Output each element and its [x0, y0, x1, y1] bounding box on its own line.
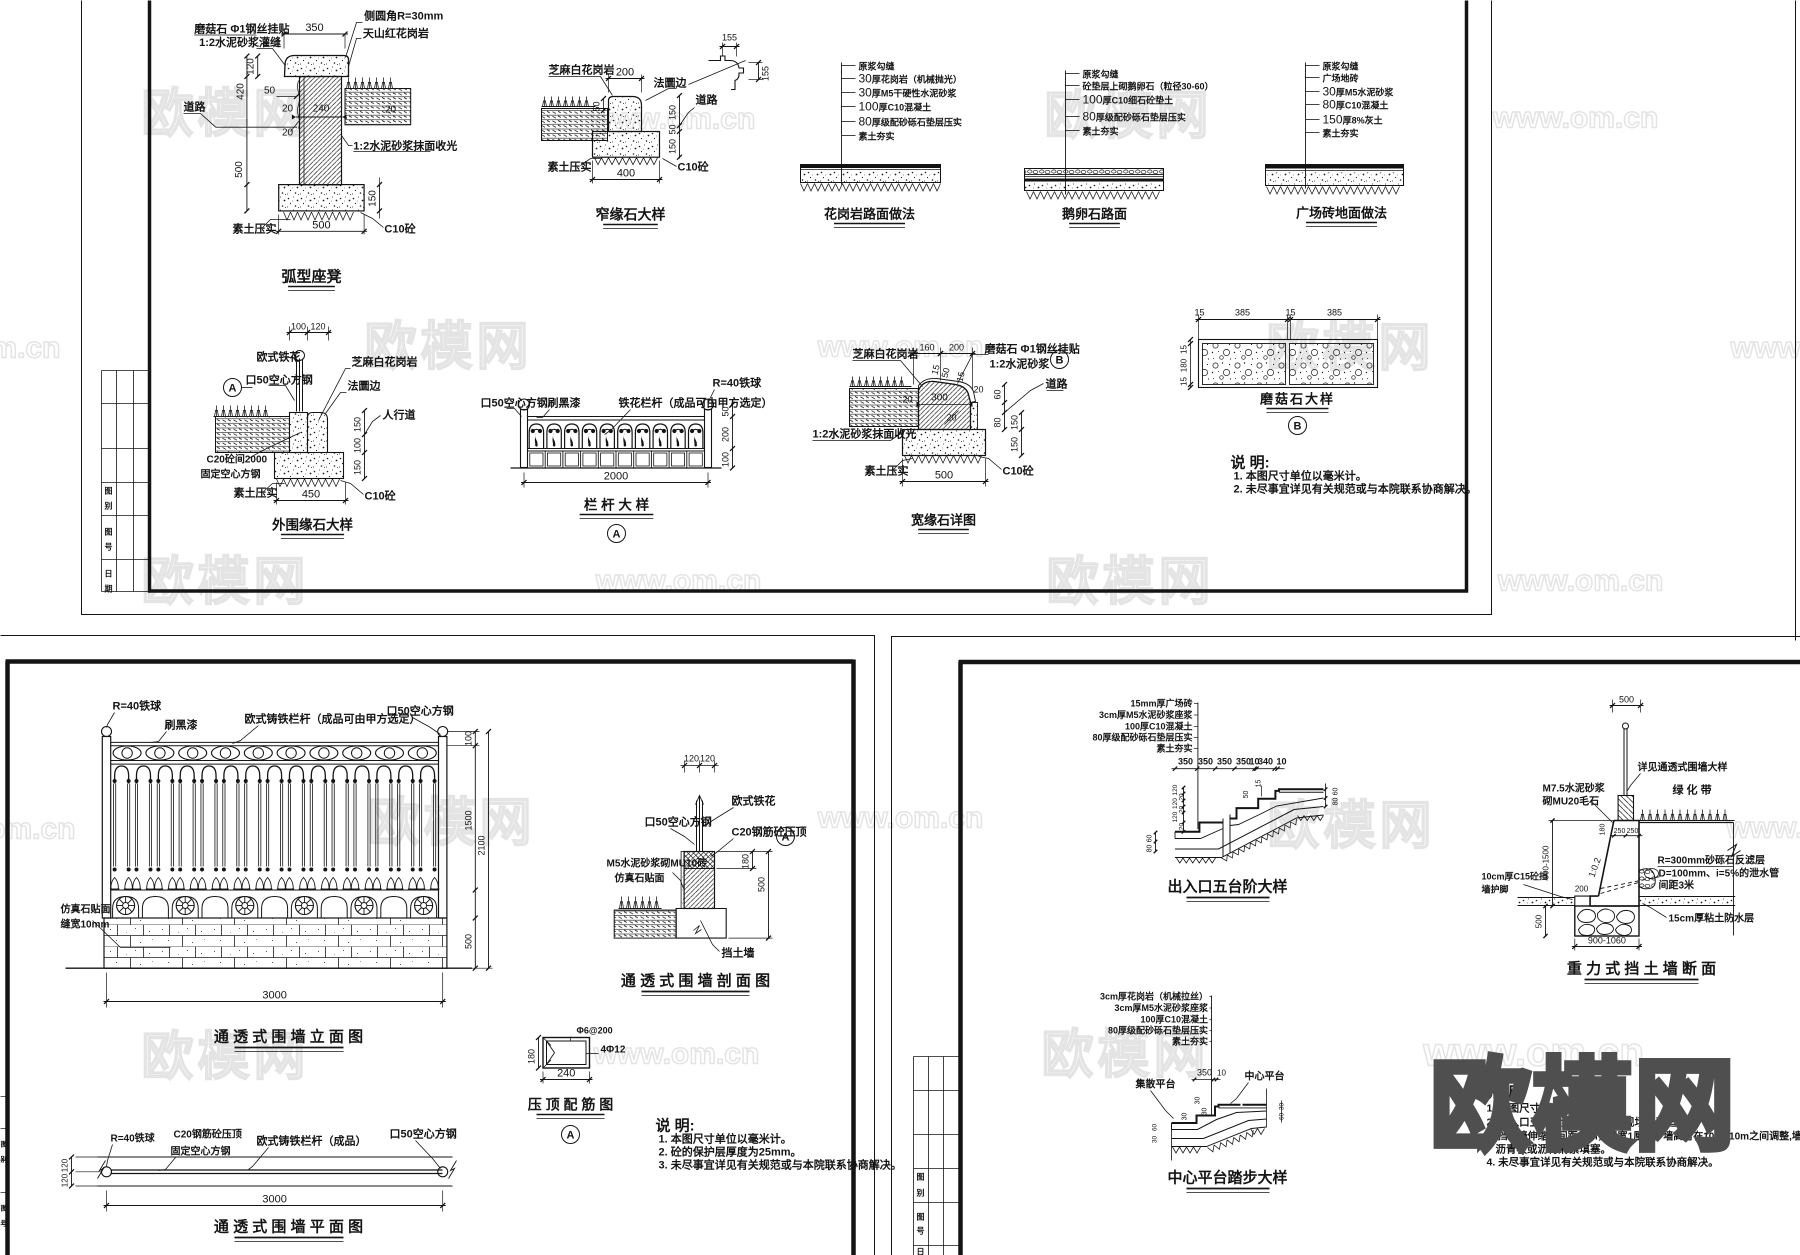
svg-text:墙护脚: 墙护脚 — [1482, 884, 1509, 895]
svg-text:中心平台: 中心平台 — [1245, 1070, 1285, 1083]
svg-text:1:2水泥砂浆: 1:2水泥砂浆 — [990, 357, 1051, 371]
svg-text:法圜边: 法圜边 — [654, 76, 688, 90]
svg-text:素土夯实: 素土夯实 — [1323, 128, 1359, 139]
fence lower arches and rosettes — [117, 897, 135, 915]
svg-text:2100: 2100 — [477, 835, 487, 855]
svg-text:素土压实: 素土压实 — [548, 160, 592, 174]
svg-text:30: 30 — [859, 72, 873, 86]
svg-text:240: 240 — [557, 1068, 575, 1080]
svg-text:厚级配砂砾石垫层压实: 厚级配砂砾石垫层压实 — [1096, 112, 1186, 123]
wide curb top dims 160/200 — [913, 348, 915, 385]
retaining wall toe — [1575, 896, 1590, 906]
wide curb ground hatch — [905, 456, 982, 464]
outer curb circleA — [224, 379, 242, 397]
svg-text:30: 30 — [1152, 1136, 1159, 1144]
svg-text:厚C10细石砼垫土: 厚C10细石砼垫土 — [1103, 95, 1174, 106]
svg-text:80厚级配砂砾石垫层压实: 80厚级配砂砾石垫层压实 — [1092, 732, 1192, 743]
svg-text:30: 30 — [1195, 1097, 1202, 1105]
svg-text:120: 120 — [61, 1158, 70, 1172]
svg-text:3000: 3000 — [262, 990, 286, 1002]
svg-text:180: 180 — [527, 1049, 537, 1064]
fence plan break marks — [98, 1161, 106, 1179]
svg-text:欧模网: 欧模网 — [1267, 798, 1435, 856]
svg-text:20: 20 — [973, 385, 983, 395]
svg-text:C20钢筋砼压顶: C20钢筋砼压顶 — [174, 1128, 242, 1141]
svg-text:10: 10 — [1276, 757, 1286, 767]
retaining wall dims left 900-1500 / 500 — [1552, 821, 1554, 907]
svg-text:厚M5干硬性水泥砂浆: 厚M5干硬性水泥砂浆 — [872, 88, 958, 99]
svg-text:欧式铸铁栏杆（成品）: 欧式铸铁栏杆（成品） — [257, 1134, 367, 1148]
narrow curb right dim chain 150/50/150 — [679, 96, 681, 159]
svg-text:2. 未尽事宜详见有关规范或与本院联系协商解决。: 2. 未尽事宜详见有关规范或与本院联系协商解决。 — [1234, 482, 1477, 496]
svg-text:500: 500 — [463, 934, 473, 949]
svg-text:别: 别 — [916, 1189, 925, 1198]
bench roadside layers — [345, 89, 411, 125]
svg-text:1. 本图尺寸单位以毫米计。: 1. 本图尺寸单位以毫米计。 — [659, 1132, 792, 1146]
svg-text:号: 号 — [105, 543, 113, 552]
svg-text:3cm厚M5水泥砂浆座浆: 3cm厚M5水泥砂浆座浆 — [1114, 1002, 1209, 1013]
svg-text:厚C10混凝土: 厚C10混凝土 — [879, 102, 932, 113]
svg-text:芝麻白花岗岩: 芝麻白花岗岩 — [549, 63, 615, 77]
svg-text:外围缘石大样: 外围缘石大样 — [272, 517, 353, 533]
svg-text:500: 500 — [1535, 914, 1544, 928]
bench right dim 150 — [379, 185, 381, 211]
svg-text:240: 240 — [313, 104, 330, 115]
center platform dim 350/10 — [1192, 1079, 1221, 1081]
svg-text:仿真石贴面: 仿真石贴面 — [61, 903, 111, 916]
svg-text:180: 180 — [741, 854, 751, 869]
fence dim 3000 — [106, 973, 108, 1008]
retaining wall dim 900-1060 — [1574, 939, 1576, 951]
svg-text:口50空心方钢: 口50空心方钢 — [481, 396, 548, 410]
center platform right boundary — [1266, 1089, 1268, 1128]
fence section circleA — [777, 828, 795, 846]
svg-text:30: 30 — [1323, 85, 1337, 99]
svg-text:30: 30 — [1202, 1108, 1209, 1116]
svg-text:80: 80 — [1147, 845, 1154, 853]
svg-text:D=100mm、i=5%的泄水管: D=100mm、i=5%的泄水管 — [1659, 867, 1780, 880]
svg-text:www.om.cn: www.om.cn — [1726, 812, 1800, 845]
svg-text:欧模网: 欧模网 — [141, 554, 309, 612]
svg-text:155: 155 — [722, 33, 737, 43]
mushroom left small dims — [1190, 340, 1192, 388]
outer curb stones — [290, 413, 308, 453]
sheet3 thick border — [959, 662, 1800, 1255]
svg-text:欧式铁花: 欧式铁花 — [257, 350, 301, 364]
svg-text:400: 400 — [617, 168, 635, 180]
svg-text:Φ6@200: Φ6@200 — [577, 1026, 613, 1036]
svg-text:窄缘石大样: 窄缘石大样 — [596, 207, 666, 223]
sheet2 left edge strip marks — [1, 1096, 8, 1098]
svg-text:120: 120 — [310, 322, 325, 332]
fence lower band rails — [111, 889, 439, 891]
svg-text:素土夯实: 素土夯实 — [1172, 1036, 1208, 1047]
svg-text:素土夯实: 素土夯实 — [1156, 743, 1192, 754]
svg-text:100: 100 — [721, 452, 731, 467]
svg-text:120: 120 — [684, 754, 699, 764]
svg-text:1:2水泥砂浆灌缝: 1:2水泥砂浆灌缝 — [199, 35, 281, 49]
svg-text:1:2水泥砂浆抹面收光: 1:2水泥砂浆抹面收光 — [353, 139, 457, 153]
svg-text:A: A — [567, 1130, 575, 1142]
fence section post rod — [696, 801, 698, 852]
retaining wall gravel filter — [1639, 869, 1655, 889]
narrow curb dim 400 — [592, 161, 594, 184]
svg-text:通 透 式 围 墙 平 面 图: 通 透 式 围 墙 平 面 图 — [214, 1218, 363, 1236]
narrow curb road layers — [542, 109, 608, 141]
svg-text:150: 150 — [1010, 437, 1020, 452]
svg-text:C20钢筋砼压顶: C20钢筋砼压顶 — [732, 825, 807, 839]
svg-text:别: 别 — [104, 502, 113, 511]
railing dim 2000 — [523, 473, 525, 488]
svg-text:C10砼: C10砼 — [1003, 464, 1035, 478]
retaining wall right boundary — [1733, 823, 1735, 936]
svg-text:120: 120 — [1172, 811, 1179, 822]
svg-text:www.om.cn: www.om.cn — [1497, 565, 1664, 598]
entrance steps 80/60 left dim — [1155, 833, 1157, 852]
svg-text:900-1060: 900-1060 — [1588, 936, 1626, 946]
svg-text:R=300mm砂砾石反滤层: R=300mm砂砾石反滤层 — [1658, 854, 1766, 867]
svg-text:C10砼: C10砼 — [384, 222, 416, 236]
narrow curb stone — [609, 97, 642, 132]
svg-text:厚M5水泥砂浆: 厚M5水泥砂浆 — [1336, 87, 1395, 98]
svg-text:200: 200 — [616, 67, 634, 79]
svg-text:200: 200 — [949, 343, 964, 353]
svg-text:重 力 式 挡 土 墙 断 面: 重 力 式 挡 土 墙 断 面 — [1567, 960, 1716, 978]
narrow curb foundation — [593, 132, 660, 158]
svg-text:广场砖地面做法: 广场砖地面做法 — [1296, 206, 1387, 221]
svg-text:80: 80 — [1333, 798, 1340, 806]
svg-text:欧模网: 欧模网 — [1046, 554, 1214, 612]
svg-text:仿真石贴面: 仿真石贴面 — [615, 872, 665, 885]
svg-text:www.om.cn: www.om.cn — [1492, 102, 1659, 135]
svg-text:350: 350 — [1198, 757, 1213, 767]
svg-text:100厚C10混凝土: 100厚C10混凝土 — [1125, 721, 1193, 732]
center platform leader line — [1211, 996, 1213, 1116]
svg-text:180: 180 — [1180, 358, 1189, 372]
sheet2 outer thin border — [1, 636, 875, 1255]
svg-text:80: 80 — [1083, 110, 1097, 124]
svg-text:说 明:: 说 明: — [656, 1117, 695, 1135]
fence section dim 120/120 — [684, 761, 686, 773]
retaining wall body — [1590, 821, 1639, 907]
outer curb plants — [215, 406, 268, 417]
svg-text:图: 图 — [105, 528, 113, 537]
svg-text:R=40铁球: R=40铁球 — [713, 376, 763, 390]
coping dims 180/240 — [538, 1038, 540, 1069]
svg-text:180: 180 — [1600, 824, 1607, 836]
svg-text:厚花岗岩（机械抛光）: 厚花岗岩（机械抛光） — [872, 74, 962, 85]
svg-text:www.om.cn: www.om.cn — [0, 332, 61, 365]
svg-text:素土夯实: 素土夯实 — [859, 131, 895, 142]
svg-text:60: 60 — [1147, 835, 1154, 843]
svg-text:500: 500 — [1619, 695, 1634, 705]
fence plan dim 120/120 — [71, 1157, 73, 1186]
mushroom stone slabs — [1199, 340, 1378, 388]
entrance steps top dim row — [1172, 768, 1285, 770]
svg-text:B: B — [1294, 421, 1302, 433]
svg-text:150: 150 — [1010, 415, 1020, 430]
svg-text:C10砼: C10砼 — [365, 489, 397, 503]
svg-text:15: 15 — [1180, 345, 1189, 354]
svg-text:磨菇石 Φ1钢丝挂贴: 磨菇石 Φ1钢丝挂贴 — [193, 22, 289, 36]
fence left post — [102, 737, 110, 919]
svg-text:R=40铁球: R=40铁球 — [113, 699, 163, 713]
entrance steps leader line — [1197, 703, 1199, 830]
svg-text:3. 未尽事宜详见有关规范或与本院联系协商解决。: 3. 未尽事宜详见有关规范或与本院联系协商解决。 — [659, 1158, 902, 1172]
center platform left boundary — [1171, 1123, 1173, 1161]
svg-text:出入口五台阶大样: 出入口五台阶大样 — [1167, 878, 1287, 896]
outer curb foundation — [275, 453, 344, 479]
svg-text:说 明:: 说 明: — [1231, 454, 1270, 472]
svg-text:60: 60 — [1333, 788, 1340, 796]
svg-text:420: 420 — [235, 83, 246, 100]
railing circleA tag — [608, 525, 626, 543]
svg-text:60: 60 — [1279, 1113, 1286, 1121]
fence bar base ornaments — [113, 868, 117, 872]
svg-text:200: 200 — [1575, 885, 1589, 894]
svg-text:1. 本图尺寸单位以毫米计。: 1. 本图尺寸单位以毫米计。 — [1234, 469, 1367, 483]
svg-text:通 透 式 围 墙 剖 面 图: 通 透 式 围 墙 剖 面 图 — [621, 972, 770, 990]
outer curb dim 100/120 — [289, 327, 291, 341]
svg-text:15: 15 — [1285, 308, 1295, 318]
svg-text:中心平台踏步大样: 中心平台踏步大样 — [1167, 1169, 1287, 1187]
narrow curb dim 50 left — [603, 99, 605, 111]
svg-text:385: 385 — [1235, 308, 1250, 318]
sheet3 outer thin border — [892, 637, 1800, 1255]
mushroom circleB tag — [1289, 417, 1307, 435]
svg-text:素土压实: 素土压实 — [233, 222, 277, 236]
fence plan dim 3000 — [106, 1191, 108, 1212]
svg-text:10: 10 — [1217, 1069, 1226, 1078]
svg-text:原浆勾缝: 原浆勾缝 — [859, 61, 895, 72]
svg-text:150: 150 — [353, 460, 363, 475]
svg-text:30: 30 — [1182, 1113, 1189, 1121]
wide curb plants — [851, 377, 904, 387]
fence section road layers — [614, 910, 676, 938]
svg-text:250: 250 — [1627, 828, 1639, 835]
wide curb dim 500 — [902, 459, 904, 487]
fence section dims 180/500 — [752, 852, 754, 869]
sheet1 outer thin border — [82, 1, 1492, 615]
coping rebar detail 压顶配筋图 — [543, 1038, 590, 1069]
svg-text:30: 30 — [859, 86, 873, 100]
svg-text:15cm厚粘土防水层: 15cm厚粘土防水层 — [1669, 912, 1755, 925]
svg-text:鹅卵石路面: 鹅卵石路面 — [1062, 207, 1127, 222]
svg-text:120: 120 — [61, 1173, 70, 1187]
svg-text:厚级配砂砾石垫层压实: 厚级配砂砾石垫层压实 — [872, 117, 962, 128]
svg-text:www.om.cn: www.om.cn — [0, 813, 76, 846]
svg-text:弧型座凳: 弧型座凳 — [281, 268, 341, 286]
wide curb stone block — [919, 381, 971, 429]
retaining wall plants right 绿化带 — [1641, 810, 1728, 821]
svg-text:3cm厚花岗岩（机械拉丝）: 3cm厚花岗岩（机械拉丝） — [1100, 991, 1208, 1002]
bench ground hatch — [284, 212, 354, 220]
sheet1 title block table — [102, 370, 149, 372]
outer curb dim 450 — [276, 483, 278, 505]
svg-text:15: 15 — [1180, 377, 1189, 386]
svg-text:150: 150 — [353, 417, 363, 432]
railing scroll ornaments — [529, 424, 543, 449]
retaining wall soil band left — [1518, 898, 1575, 906]
svg-text:20: 20 — [282, 104, 294, 115]
wide curb circleB tag — [1051, 351, 1069, 369]
narrow curb plants — [543, 97, 589, 107]
svg-text:砼垫层上砌鹅卵石（粒径30-60）: 砼垫层上砌鹅卵石（粒径30-60） — [1083, 81, 1214, 92]
retaining wall soil band right — [1639, 897, 1735, 906]
svg-text:3cm厚M5水泥砂浆座浆: 3cm厚M5水泥砂浆座浆 — [1099, 709, 1194, 720]
svg-text:人行道: 人行道 — [383, 408, 416, 422]
svg-text:15mm厚广场砖: 15mm厚广场砖 — [1130, 698, 1192, 709]
fence right dim chain 100/1500/500/2100 — [474, 732, 476, 969]
svg-text:原浆勾缝: 原浆勾缝 — [1083, 69, 1119, 80]
svg-text:80: 80 — [1323, 98, 1337, 112]
svg-text:60: 60 — [993, 389, 1003, 399]
svg-text:20: 20 — [1179, 806, 1186, 814]
svg-text:450: 450 — [302, 489, 320, 501]
svg-text:20: 20 — [282, 128, 294, 139]
svg-text:1500: 1500 — [463, 810, 473, 830]
svg-text:压 顶 配 筋 图: 压 顶 配 筋 图 — [528, 1097, 614, 1113]
center platform concrete band — [1172, 1111, 1267, 1130]
svg-text:4Φ12: 4Φ12 — [601, 1045, 626, 1056]
bench footing — [279, 185, 364, 211]
entrance steps left dim chain — [1183, 788, 1185, 833]
svg-text:10cm厚C15砼挡: 10cm厚C15砼挡 — [1482, 871, 1549, 882]
sheet3 title block strip — [913, 1057, 915, 1255]
svg-text:300: 300 — [931, 393, 948, 404]
fence plan bar — [111, 1169, 443, 1171]
svg-text:欧模网: 欧模网 — [367, 795, 535, 853]
svg-text:宽缘石详图: 宽缘石详图 — [910, 513, 976, 528]
svg-text:50: 50 — [668, 124, 678, 134]
railing left post — [521, 410, 528, 468]
retaining wall dim 500 top — [1612, 700, 1614, 713]
svg-text:500: 500 — [312, 219, 330, 231]
svg-text:500: 500 — [757, 877, 767, 892]
svg-text:原浆勾缝: 原浆勾缝 — [1323, 61, 1359, 72]
svg-text:图: 图 — [105, 487, 113, 496]
svg-text:日: 日 — [105, 570, 113, 579]
svg-text:花岗岩路面做法: 花岗岩路面做法 — [824, 207, 915, 222]
svg-text:155: 155 — [761, 66, 771, 81]
fence top rails — [111, 741, 439, 743]
svg-text:道路: 道路 — [184, 100, 207, 114]
svg-text:刷黑漆: 刷黑漆 — [165, 718, 198, 732]
svg-text:80: 80 — [993, 417, 1003, 427]
pavement leader 原浆勾缝 — [1065, 71, 1067, 195]
retaining wall ground line right — [1639, 822, 1734, 824]
svg-text:广场地砖: 广场地砖 — [1323, 73, 1359, 84]
entrance steps break lines — [1222, 819, 1224, 857]
narrow curb ground hatch — [595, 158, 658, 165]
svg-text:100: 100 — [1083, 93, 1103, 107]
outer curb ground hatch — [277, 479, 340, 487]
narrow curb molding profile — [709, 56, 744, 90]
svg-text:号: 号 — [1, 1219, 8, 1228]
entrance steps profile — [1175, 823, 1223, 832]
entrance steps concrete band — [1175, 829, 1223, 839]
svg-text:100: 100 — [463, 731, 473, 746]
svg-text:350: 350 — [1178, 757, 1193, 767]
outer curb post — [296, 359, 298, 412]
sheet1 thick border — [150, 1, 1467, 592]
svg-text:法圜边: 法圜边 — [348, 379, 382, 393]
svg-text:350: 350 — [305, 22, 323, 34]
narrow curb leader 法圜边 — [646, 89, 677, 101]
svg-text:磨菇石大样: 磨菇石大样 — [1260, 392, 1335, 407]
svg-text:别: 别 — [0, 1155, 8, 1164]
svg-text:图: 图 — [1, 1204, 8, 1213]
svg-text:50: 50 — [1243, 791, 1250, 799]
svg-text:150: 150 — [368, 190, 379, 207]
pavement leader 原浆勾缝 — [841, 63, 843, 185]
fence ground line — [66, 967, 473, 969]
svg-text:385: 385 — [1327, 308, 1342, 318]
bench dim 500 bottom — [278, 215, 280, 235]
svg-text:固定空心方钢: 固定空心方钢 — [171, 1145, 231, 1158]
bench column hatched — [300, 77, 342, 185]
fence section pillar — [684, 852, 714, 909]
svg-text:芝麻白花岗岩: 芝麻白花岗岩 — [352, 355, 418, 369]
fence section foundation — [676, 909, 726, 939]
svg-text:50: 50 — [264, 86, 276, 97]
svg-text:500: 500 — [234, 161, 245, 178]
railing lower panels — [530, 453, 543, 466]
svg-text:道路: 道路 — [696, 93, 719, 107]
svg-text:350: 350 — [1217, 757, 1232, 767]
railing rails — [528, 416, 705, 418]
svg-text:500: 500 — [935, 470, 953, 482]
coping circleA — [562, 1126, 580, 1144]
svg-text:2. 砼的保护层厚度为25mm。: 2. 砼的保护层厚度为25mm。 — [659, 1145, 802, 1159]
bench plants — [347, 78, 393, 89]
bench top slab — [285, 56, 349, 77]
svg-text:磨菇石 Φ1钢丝挂贴: 磨菇石 Φ1钢丝挂贴 — [984, 342, 1080, 356]
svg-text:C10砼: C10砼 — [678, 160, 710, 174]
svg-text:120: 120 — [700, 754, 715, 764]
svg-text:口50空心方钢: 口50空心方钢 — [246, 373, 313, 387]
bench dim 350 — [283, 34, 285, 49]
svg-text:250: 250 — [1614, 828, 1626, 835]
outer curb road layers — [216, 417, 290, 453]
svg-text:340: 340 — [1258, 757, 1273, 767]
svg-text:口50空心方钢: 口50空心方钢 — [645, 815, 712, 829]
svg-text:素土夯实: 素土夯实 — [1083, 126, 1119, 137]
plaza brick section — [1266, 165, 1404, 169]
wide curb right thin stone — [971, 403, 978, 430]
svg-text:B: B — [1056, 355, 1064, 367]
svg-text:间距3米: 间距3米 — [1659, 879, 1696, 892]
center platform slab slopes — [1172, 1119, 1267, 1139]
svg-text:号: 号 — [917, 1227, 925, 1236]
svg-text:100: 100 — [291, 322, 306, 332]
svg-text:C20砼间2000: C20砼间2000 — [207, 453, 268, 466]
svg-text:80厚级配砂砾石垫层压实: 80厚级配砂砾石垫层压实 — [1108, 1025, 1208, 1036]
svg-text:20: 20 — [902, 395, 912, 405]
railing base line — [511, 467, 722, 469]
cobble pavement section — [1025, 169, 1164, 175]
retaining wall coping pillar — [1618, 796, 1633, 821]
svg-text:欧模网: 欧模网 — [1431, 1051, 1737, 1163]
svg-text:缝宽10mm: 缝宽10mm — [61, 918, 110, 931]
svg-text:道路: 道路 — [1046, 377, 1069, 391]
svg-text:口50空心方钢: 口50空心方钢 — [387, 704, 454, 718]
wide curb road layers — [850, 389, 919, 427]
mushroom stone dims — [1198, 315, 1200, 340]
svg-text:www.om.cn: www.om.cn — [1730, 332, 1800, 365]
entrance steps right dim 80/60 — [1325, 784, 1327, 807]
adjacent sheet edge line right — [1795, 1, 1797, 641]
